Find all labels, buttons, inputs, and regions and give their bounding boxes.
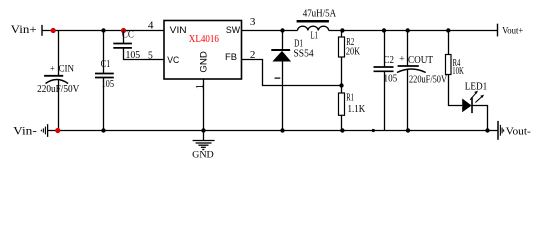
svg-text:FB: FB bbox=[225, 52, 237, 63]
wire C2 branch lower bbox=[384, 71, 386, 130]
svg-text:VIN: VIN bbox=[170, 25, 187, 36]
svg-text:5: 5 bbox=[148, 51, 153, 62]
node CC top junction red bbox=[121, 28, 126, 33]
svg-text:Vin+: Vin+ bbox=[11, 22, 37, 36]
ground symbol bbox=[193, 141, 215, 150]
svg-text:LED1: LED1 bbox=[465, 81, 488, 92]
node R1 bottom junction bbox=[340, 128, 344, 132]
node CIN bottom junction red bbox=[55, 128, 60, 133]
svg-text:XL4016: XL4016 bbox=[189, 34, 219, 45]
capacitor C2 bbox=[374, 67, 394, 71]
wire COUT branch lower bbox=[407, 70, 409, 131]
svg-text:GND: GND bbox=[192, 151, 214, 161]
wire R2 to R1 junction bbox=[341, 57, 343, 93]
svg-text:C2: C2 bbox=[384, 55, 394, 66]
svg-text:3: 3 bbox=[250, 17, 256, 28]
svg-text:CIN: CIN bbox=[59, 65, 75, 75]
svg-text:4: 4 bbox=[148, 20, 154, 31]
node R2 top junction bbox=[340, 28, 344, 32]
svg-text:1.1K: 1.1K bbox=[348, 104, 366, 115]
resistor R1 bbox=[339, 93, 345, 115]
svg-text:20K: 20K bbox=[346, 47, 361, 58]
capacitor COUT bbox=[397, 66, 426, 73]
svg-text:L1: L1 bbox=[311, 31, 319, 42]
svg-text:Vin-: Vin- bbox=[13, 123, 37, 137]
wire FB pin 2 to divider bbox=[242, 60, 342, 86]
resistor R2 bbox=[339, 37, 345, 57]
svg-text:10K: 10K bbox=[452, 66, 464, 77]
node GND junction bbox=[201, 128, 205, 132]
svg-text:Vout-: Vout- bbox=[506, 125, 531, 137]
svg-text:SW: SW bbox=[226, 25, 240, 36]
node C1 top junction bbox=[101, 28, 105, 32]
svg-text:Vout+: Vout+ bbox=[502, 25, 523, 35]
node COUT top junction bbox=[406, 28, 410, 32]
node D1 bottom junction bbox=[280, 128, 284, 132]
wire SW pin 3 to L1 bbox=[242, 30, 298, 32]
inductor L1 core bar bbox=[297, 20, 329, 23]
terminal Vout+ bbox=[497, 24, 499, 37]
svg-text:VC: VC bbox=[167, 55, 179, 66]
svg-text:COUT: COUT bbox=[408, 55, 433, 66]
wire bottom rail bbox=[48, 130, 498, 132]
svg-text:CC: CC bbox=[122, 30, 134, 41]
wire D1 branch lower bbox=[282, 62, 284, 131]
wire R4 branch upper bbox=[448, 31, 450, 55]
node R4 top junction bbox=[446, 28, 450, 32]
wire L1 to Vout+ rail bbox=[329, 30, 498, 32]
diode D1 SS54 bbox=[271, 50, 291, 62]
IC U1 XL4016 body bbox=[164, 21, 242, 80]
capacitor CIN bbox=[44, 76, 68, 84]
wire C1 branch upper bbox=[103, 31, 105, 74]
terminal Vin+ bbox=[41, 25, 43, 36]
node C1 bottom junction bbox=[101, 128, 105, 132]
svg-text:105: 105 bbox=[384, 73, 398, 84]
wire R4 to LED1 bbox=[449, 75, 463, 106]
svg-text:220uF/50V: 220uF/50V bbox=[409, 74, 448, 85]
wire R2 branch upper bbox=[341, 31, 343, 38]
node D1 top junction bbox=[280, 28, 284, 32]
node C2 bottom junction (offset dot) bbox=[372, 129, 375, 132]
svg-text:47uH/5A: 47uH/5A bbox=[303, 9, 337, 20]
svg-text:GND: GND bbox=[198, 51, 209, 73]
node COUT bottom junction bbox=[406, 128, 410, 132]
wire COUT branch upper bbox=[407, 31, 409, 67]
wire C1 branch lower bbox=[103, 78, 105, 131]
svg-text:1: 1 bbox=[195, 84, 206, 89]
svg-text:+: + bbox=[50, 65, 55, 75]
wire top rail left (Vin+ to IC VIN pin 4) bbox=[42, 30, 164, 32]
wire CIN branch upper bbox=[58, 31, 60, 76]
wire D1 branch upper bbox=[282, 31, 284, 51]
wire C2 branch upper bbox=[384, 31, 386, 67]
terminal Vin- (chassis bars) bbox=[41, 124, 47, 137]
wire CC branch upper bbox=[123, 31, 125, 44]
resistor R4 bbox=[446, 55, 452, 75]
node R2/R1 FB junction bbox=[339, 83, 343, 87]
svg-text:+: + bbox=[399, 55, 404, 65]
svg-text:C1: C1 bbox=[101, 59, 111, 70]
inductor L1 bbox=[298, 26, 329, 30]
wire LED1 to bottom rail bbox=[472, 106, 488, 131]
LED LED1 bbox=[462, 91, 484, 114]
capacitor C1 bbox=[95, 74, 114, 78]
terminal Vout- (chassis bars) bbox=[498, 121, 504, 140]
node LED bottom junction bbox=[485, 128, 489, 132]
wire R1 branch lower bbox=[341, 115, 343, 130]
svg-text:SS54: SS54 bbox=[294, 49, 314, 60]
wire CC to VC pin 5 bbox=[124, 48, 164, 60]
capacitor CC bbox=[113, 44, 132, 48]
wire CIN branch lower bbox=[58, 80, 60, 131]
node C2 top junction bbox=[382, 28, 386, 32]
svg-text:R1: R1 bbox=[346, 92, 354, 103]
node red dot on top rail bbox=[51, 28, 56, 33]
wire small dash near D1 bbox=[275, 77, 281, 79]
wire GND pin 1 bbox=[203, 79, 205, 141]
